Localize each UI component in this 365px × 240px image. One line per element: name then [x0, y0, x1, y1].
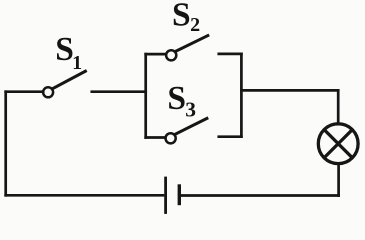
wire S3 left stub: [146, 136, 166, 139]
wire right vertical upper: [337, 90, 340, 122]
wire S1 fixed contact: [92, 90, 146, 93]
switch S1 pivot: [43, 87, 53, 97]
switch S1 blade: [53, 71, 86, 88]
wire parallel-box left vertical: [144, 54, 147, 137]
wire S2 left stub: [146, 53, 166, 56]
wire bracket top stub: [219, 53, 242, 56]
wire left vertical: [4, 92, 7, 196]
svg-text:S1: S1: [55, 31, 82, 74]
lamp L1: [318, 124, 358, 164]
wire bottom left (to battery): [6, 194, 163, 197]
battery B1 long plate: [164, 178, 167, 213]
svg-text:S3: S3: [167, 80, 196, 121]
wire S1 left lead: [6, 90, 44, 93]
switch S3 pivot: [166, 133, 176, 143]
battery B1 short plate: [178, 186, 181, 204]
switch S2 blade: [176, 36, 208, 52]
switch S3 blade: [175, 118, 207, 134]
wire bracket bottom stub: [219, 135, 242, 138]
wire bottom right (battery to lamp): [181, 194, 339, 197]
wire mid right (bracket to lamp): [241, 89, 338, 92]
wire right vertical lower: [337, 166, 340, 196]
switch S2 pivot: [166, 50, 176, 60]
svg-text:S2: S2: [172, 0, 200, 36]
wire bracket right vertical: [240, 54, 243, 137]
